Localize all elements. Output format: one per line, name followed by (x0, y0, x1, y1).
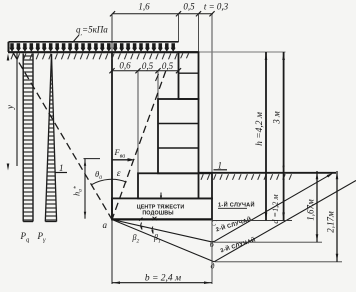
svg-text:0,5: 0,5 (162, 61, 174, 71)
Pgamma rungs (45, 60, 56, 220)
svg-text:1,6: 1,6 (138, 2, 150, 12)
base line bold overlay (112, 218, 212, 220)
dimension row 2 line (112, 70, 179, 72)
svg-text:2,17м: 2,17м (326, 211, 336, 233)
y dimension line (16, 53, 18, 166)
load band left edge (8, 42, 10, 52)
tick at 212 (209, 11, 214, 16)
case 3 slip line (214, 181, 356, 262)
centroid pointer arrow (160, 193, 162, 198)
dimension 2,17m line (336, 171, 338, 262)
svg-text:а: а (103, 220, 108, 230)
Pgamma right edge (52, 54, 57, 222)
extension line x=178.5 top (178, 14, 180, 42)
Pgamma bottom (45, 221, 56, 223)
tick at 112.5 (110, 11, 115, 16)
case 2 slip line (213, 174, 331, 242)
angle arc at point a (92, 179, 127, 184)
dimension 3m/d line (283, 52, 285, 221)
row3/4 divider (158, 123, 199, 125)
right ground hatching (201, 174, 292, 180)
svg-text:ПОДОШВЫ: ПОДОШВЫ (142, 210, 173, 216)
svg-text:1: 1 (59, 163, 64, 173)
extension line x=212 (211, 14, 213, 173)
svg-text:d =1,2 м: d =1,2 м (271, 194, 280, 224)
ha dimension line (84, 159, 86, 219)
extension x=138 (137, 71, 139, 173)
dimension 1,67m line (316, 171, 318, 242)
ha top tick (84, 158, 101, 160)
Pq rungs (23, 56, 33, 220)
leader for q label (73, 35, 80, 43)
dimension h=4,2m line (265, 52, 267, 221)
wall rows 3-5 outline (158, 99, 199, 173)
extension line x=198.5 top (198, 14, 200, 52)
extension x=158 (157, 71, 159, 99)
svg-text:1: 1 (218, 161, 223, 171)
svg-text:h =4,2 м: h =4,2 м (255, 112, 265, 146)
svg-text:1-Й СЛУЧАЙ: 1-Й СЛУЧАЙ (218, 200, 255, 208)
svg-text:д: д (211, 262, 215, 271)
surface extension thin to right (199, 51, 286, 53)
tick at 198.5 (196, 11, 201, 16)
wall stem rows 1-2 outline (179, 52, 199, 99)
extension x=212 down to b-dim (211, 220, 213, 285)
right ground line (199, 172, 337, 174)
force Fva arrow (112, 159, 130, 161)
tick at 178.5 (176, 11, 181, 16)
Pq right edge (32, 54, 34, 222)
base extension line right (212, 220, 292, 222)
svg-text:у: у (5, 105, 15, 110)
dimension b=2,4m line (112, 282, 212, 284)
stem block divider (179, 72, 199, 74)
load band arrow bars (10, 43, 176, 52)
svg-text:1,67м: 1,67м (306, 199, 316, 221)
dimension row top line (113, 13, 214, 15)
svg-text:0,5: 0,5 (142, 61, 154, 71)
small angle arc arrow 1 (141, 223, 142, 230)
tier2 internal joint (wall face continuation) (198, 173, 200, 198)
svg-text:b = 2,4 м: b = 2,4 м (145, 274, 181, 284)
centroid cross on base (153, 217, 157, 221)
d-point extension right (215, 261, 342, 263)
svg-text:0,6: 0,6 (119, 61, 131, 71)
dashed rupture line from band left end to point a (13, 53, 112, 220)
svg-text:0,5: 0,5 (183, 2, 195, 12)
dashed line from wall top corner to point a (112, 71, 166, 220)
pressure diagram Pq left edge (22, 54, 24, 222)
base plane line a-C is foundation bottom; fan line a to b (112, 220, 213, 243)
load band q top line (9, 41, 179, 43)
fan line a to d (112, 220, 214, 262)
b-point extension right (214, 241, 322, 243)
foundation slab outline (112, 198, 212, 219)
surface hatching (11, 53, 177, 59)
small tick mark (139, 218, 143, 221)
row4/5 divider (158, 147, 199, 149)
Pq bottom (23, 221, 33, 223)
tier 2 outline (138, 173, 212, 198)
small slash mark (156, 74, 159, 81)
extra hatches right of wall top (181, 53, 183, 58)
extension line x=112 full height (111, 14, 113, 52)
small angle arc arrow 2 (152, 227, 153, 234)
ground surface line left (8, 51, 199, 53)
svg-text:t = 0,3: t = 0,3 (204, 2, 229, 12)
pressure diagram Pgamma left edge (45, 54, 51, 222)
svg-text:3 м: 3 м (272, 111, 282, 125)
svg-text:ε: ε (117, 169, 121, 179)
